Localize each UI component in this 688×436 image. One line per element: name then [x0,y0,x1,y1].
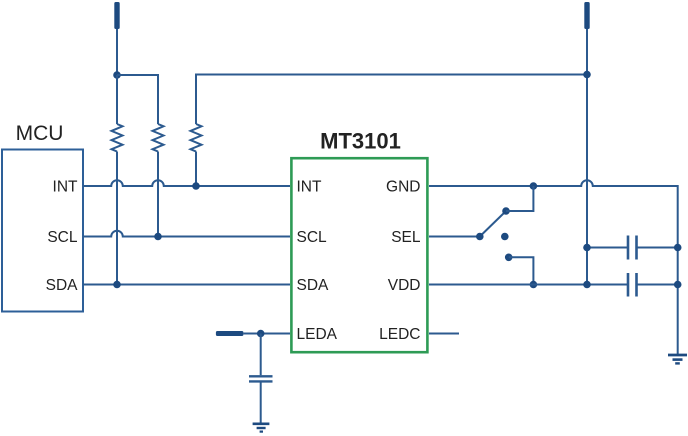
wire GND net with hop over right rail, corner down to ground [429,180,678,354]
MCU box [2,150,83,312]
wire INT net with hops over R1 R2 leads [83,180,290,186]
power rail bar VDD right [584,2,589,29]
node junction GND vertical / C1 (677.7,247.5) [674,244,682,252]
resistor R2 (SCL pull-up) [153,124,164,152]
wire switch upper throw to GND net [506,186,533,211]
node junction INT / R3 (196,186) [192,182,200,190]
wire SDA net [83,284,290,286]
svg-text:LEDC: LEDC [379,326,420,343]
wire resistor R3 bottom lead down to INT [195,152,197,187]
wire LEDA net [243,333,290,335]
node junction right rail top (587,74.5) [583,71,591,79]
node junction rail / C1 (587,247.5) [583,244,591,252]
wire capacitor C3 bottom lead [260,383,262,423]
svg-text:SDA: SDA [46,277,79,294]
wire capacitor C1 right lead [637,247,678,249]
svg-text:GND: GND [386,179,420,196]
wire VDD net from pin to capacitor C2 [429,284,628,286]
switch SW1 lever [480,212,506,237]
node junction GND / switch branch (533.4,186) [530,182,538,190]
power rail bar LEDA supply [216,331,244,336]
ground symbol right [668,355,687,363]
wire +V right rail vertical [586,29,588,285]
svg-text:SDA: SDA [297,277,330,294]
svg-text:SCL: SCL [47,229,78,246]
node junction VDD / rail (587,284.5) [583,281,591,289]
wire capacitor C1 left lead [587,247,628,249]
resistor R1 (SDA pull-up) [112,124,123,152]
switch SW1 lower throw contact dot [505,253,513,261]
IC U1 MT3101 box [291,158,427,352]
wire SCL net with hop over R1 lead [83,231,290,237]
node junction SDA / R1 (117,284.5) [113,281,121,289]
wire branch to resistor R2 top [117,75,158,124]
switch SW1 pole contact dot [476,233,484,241]
wire SEL pin to switch pole [429,236,480,238]
svg-text:INT: INT [53,179,79,196]
svg-text:SEL: SEL [391,229,421,246]
wire resistor R1 bottom lead down to SDA [116,152,118,285]
power rail bar VDD left [114,2,119,29]
capacitor C2 plates [628,273,637,297]
node junction SCL / R2 (158,236.5) [154,233,162,241]
switch SW1 upper throw contact dot [502,207,510,215]
switch SW1 middle throw contact dot [501,233,509,241]
svg-text:LEDA: LEDA [297,326,338,343]
wire +V right rail horizontal feed to R3 [196,75,587,125]
svg-text:VDD: VDD [388,277,421,294]
node junction left rail (117,75) [113,71,121,79]
ground symbol left [253,424,270,432]
capacitor C3 plates [249,376,273,381]
svg-text:INT: INT [297,179,323,196]
svg-text:SCL: SCL [297,229,328,246]
node junction VDD / switch branch (533.4,284.5) [530,281,538,289]
svg-text:MT3101: MT3101 [320,129,401,154]
wire capacitor C3 top lead [260,334,262,376]
capacitor C1 plates [628,236,637,260]
node junction LEDA / C3 (260.7,333.5) [257,330,265,338]
wire resistor R2 bottom lead down to SCL [157,152,159,237]
wire switch lower throw to VDD net [509,257,534,284]
node junction GND vertical / C2 (677.7,284.5) [674,281,682,289]
wire from left power bar down to junction [116,29,118,75]
wire LEDC stub [429,333,459,335]
svg-text:MCU: MCU [16,122,64,145]
wire capacitor C2 right lead [637,284,678,286]
wire resistor R1 top lead [116,75,118,124]
resistor R3 (INT pull-up) [191,124,202,152]
